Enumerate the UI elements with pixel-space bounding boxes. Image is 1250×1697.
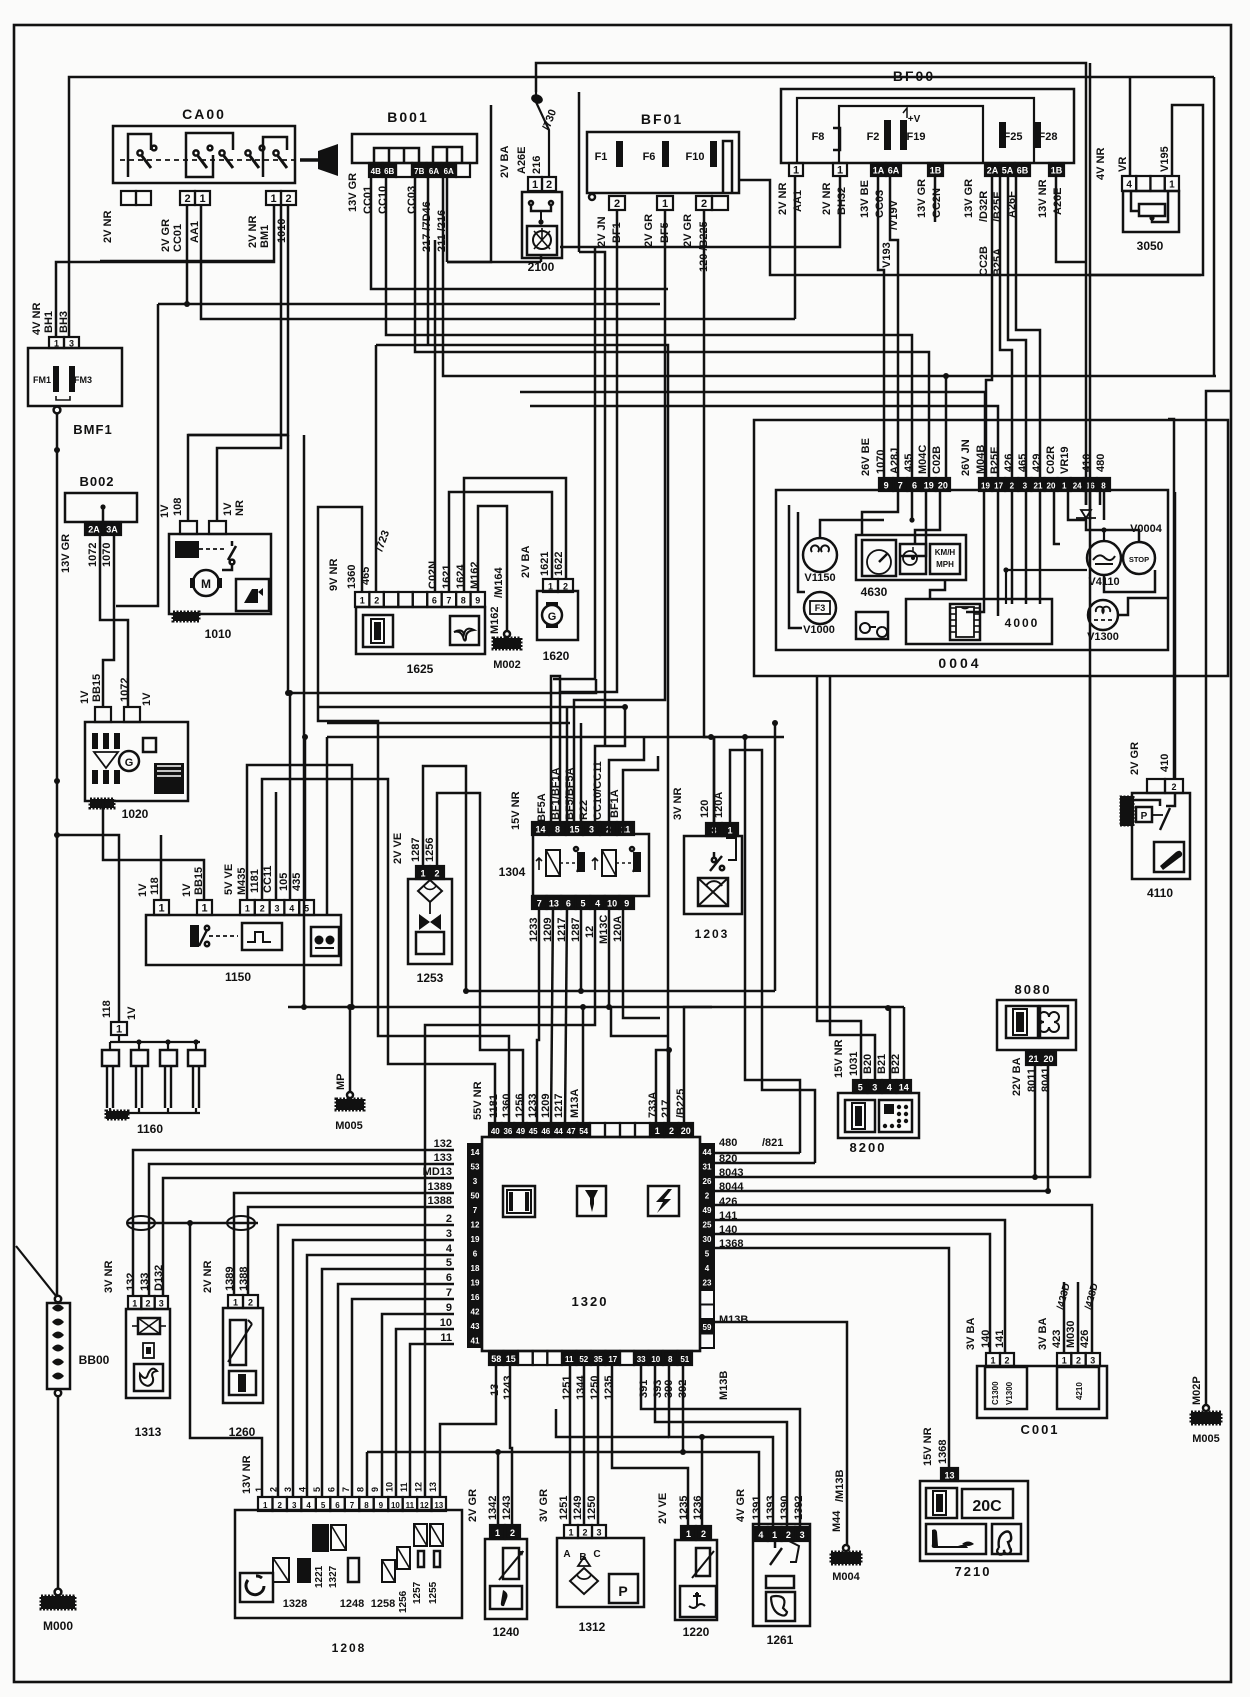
1220 icon xyxy=(680,1586,716,1617)
0004 right connector strip xyxy=(979,478,1110,491)
svg-text:M000: M000 xyxy=(43,1619,73,1633)
svg-text:26: 26 xyxy=(703,1177,712,1186)
svg-text:2: 2 xyxy=(285,193,291,205)
wire 1150 strip pin2 1181 to 1320 cell40 xyxy=(262,779,495,1123)
wire 1320 left fan to 1208 pins 2-11 xyxy=(278,1225,454,1497)
svg-text:2: 2 xyxy=(374,596,379,606)
svg-text:7210: 7210 xyxy=(955,1564,992,1579)
wire 1253 pin1 1287 loop xyxy=(423,766,466,991)
wire 1208 pin13 from 1320 pin58 xyxy=(440,1365,496,1497)
svg-text:31: 31 xyxy=(703,1163,712,1172)
svg-text:6A: 6A xyxy=(888,166,900,176)
svg-text:133: 133 xyxy=(434,1152,452,1164)
svg-text:11: 11 xyxy=(565,1355,574,1364)
svg-text:M44: M44 xyxy=(831,1510,843,1532)
svg-text:1: 1 xyxy=(270,193,276,205)
wire 1251 1320 to 1312 pin1 xyxy=(569,1365,572,1525)
1253 square xyxy=(416,932,444,954)
svg-text:CC2B: CC2B xyxy=(978,246,990,276)
1320 spark plug icon xyxy=(577,1186,606,1216)
wire 120A long vertical to 480 route xyxy=(745,737,800,1153)
gauge module 4630 xyxy=(856,535,966,580)
svg-text:1: 1 xyxy=(655,1126,660,1136)
svg-text:F3: F3 xyxy=(815,603,826,613)
wire 1320 bottom 1344 1250 1235 to 1312 1220 xyxy=(583,1365,586,1525)
svg-text:+V: +V xyxy=(908,114,921,125)
svg-text:G: G xyxy=(125,757,134,769)
svg-text:7B: 7B xyxy=(414,167,424,176)
svg-text:CC2N: CC2N xyxy=(931,188,943,218)
1312 pump diamond xyxy=(570,1568,598,1594)
svg-text:/D32R: /D32R xyxy=(978,191,990,222)
svg-text:B22: B22 xyxy=(890,1054,902,1074)
svg-text:4: 4 xyxy=(758,1530,763,1540)
svg-text:4: 4 xyxy=(306,1501,311,1510)
svg-text:1625: 1625 xyxy=(407,662,434,676)
wire 1320 390 to 1261 pin1 xyxy=(669,1365,773,1527)
1020 ground xyxy=(90,799,114,808)
svg-text:7: 7 xyxy=(473,1206,478,1215)
svg-text:1: 1 xyxy=(116,1024,122,1036)
wire 8043 from 1320 long right xyxy=(714,63,1090,1177)
1010 M motor xyxy=(193,570,219,596)
svg-text:1622: 1622 xyxy=(553,552,565,576)
injector 4 xyxy=(188,1050,205,1066)
wire BMF1 pin3 top bus y77 to 3050 pin4 xyxy=(69,77,1214,337)
svg-text:19: 19 xyxy=(981,482,990,491)
wire dangling bus y392 xyxy=(520,392,985,478)
svg-text:8200: 8200 xyxy=(850,1140,887,1155)
1320 coil icon xyxy=(503,1186,535,1217)
wire BF00 AA1 down xyxy=(794,176,797,319)
BF00 pin cells xyxy=(789,163,803,176)
svg-text:8: 8 xyxy=(668,1355,673,1364)
wire 141 to C001 pin2 xyxy=(714,1220,1005,1353)
svg-text:13: 13 xyxy=(434,1501,443,1510)
svg-text:MPH: MPH xyxy=(936,560,954,569)
svg-text:1: 1 xyxy=(158,903,164,915)
1260 thermistor symbol xyxy=(230,1320,246,1365)
svg-text:3: 3 xyxy=(446,1228,452,1240)
svg-text:7: 7 xyxy=(537,899,542,909)
1304 relay 2 xyxy=(602,850,616,876)
svg-text:F1: F1 xyxy=(595,151,608,163)
svg-text:2: 2 xyxy=(510,1528,515,1538)
svg-text:4: 4 xyxy=(446,1243,453,1255)
svg-text:1287: 1287 xyxy=(410,838,422,862)
svg-text:423: 423 xyxy=(1051,1330,1063,1348)
svg-text:19: 19 xyxy=(924,481,934,491)
BF01 pin cells xyxy=(589,194,595,200)
svg-text:43: 43 xyxy=(471,1322,480,1331)
component BF01 fuse box xyxy=(587,132,739,193)
svg-text:2: 2 xyxy=(563,582,568,592)
svg-text:2V NR: 2V NR xyxy=(202,1261,214,1293)
svg-text:24: 24 xyxy=(1073,482,1082,491)
svg-text:MD13: MD13 xyxy=(423,1166,452,1178)
ground M004 xyxy=(843,1545,849,1551)
1313 valve icon xyxy=(138,1318,160,1334)
component 1625 heater resistor unit xyxy=(356,607,485,654)
svg-text:1V: 1V xyxy=(79,690,91,704)
wire 1243 1320 pin15 to 1240 pin2 xyxy=(510,1365,512,1525)
1320 left connector xyxy=(468,1144,482,1347)
svg-text:20: 20 xyxy=(1043,1054,1053,1064)
wire C001 423 M030 stubs xyxy=(1063,1282,1066,1353)
component 1320 engine ECU xyxy=(482,1137,700,1351)
svg-text:14: 14 xyxy=(899,1083,909,1093)
svg-text:1221: 1221 xyxy=(314,1565,325,1588)
svg-text:58: 58 xyxy=(491,1354,501,1364)
wire BF00 BH32 down to left xyxy=(560,176,840,247)
svg-text:1248: 1248 xyxy=(340,1598,364,1610)
svg-text:5A: 5A xyxy=(1002,166,1014,176)
wire M13A into 1320 cell54 xyxy=(582,1007,585,1123)
7210 seat icon xyxy=(926,1524,986,1554)
wire 1625 pin7 loop to 1620 pin1 xyxy=(449,492,552,592)
wire 1320 391 to 1261 pin3 xyxy=(641,1365,800,1527)
svg-text:132: 132 xyxy=(434,1138,452,1150)
svg-text:20C: 20C xyxy=(972,1498,1002,1515)
svg-text:6A: 6A xyxy=(444,167,454,176)
wire M13A ground bus y1007 xyxy=(288,1006,904,1009)
1208 relay 1258 xyxy=(382,1560,395,1582)
7210 battery icon xyxy=(926,1488,957,1518)
ground M000 xyxy=(55,1589,62,1596)
svg-text:KM/H: KM/H xyxy=(935,548,956,557)
wire 820 from 1320 xyxy=(714,1162,815,1165)
svg-text:1: 1 xyxy=(772,1530,777,1540)
component 1203 idle actuator xyxy=(684,836,742,914)
svg-text:12: 12 xyxy=(414,1482,424,1492)
svg-text:BB15: BB15 xyxy=(91,674,103,702)
svg-text:1010: 1010 xyxy=(205,627,232,641)
svg-text:M004: M004 xyxy=(832,1571,860,1583)
svg-text:5: 5 xyxy=(705,1250,710,1259)
svg-text:13V NR: 13V NR xyxy=(1037,179,1049,218)
svg-text:19: 19 xyxy=(471,1279,480,1288)
wire 8080 feeds down xyxy=(1034,1066,1037,1177)
svg-text:B21: B21 xyxy=(876,1054,888,1074)
0004 internal wiring xyxy=(789,505,802,628)
wire BF00 CC03/V193 long down to 0004 xyxy=(878,176,884,478)
svg-text:2V GR: 2V GR xyxy=(467,1489,479,1522)
svg-text:1327: 1327 xyxy=(328,1565,339,1588)
wire 1360 1625 pin1 loop to 1320 cell36 xyxy=(318,507,509,1123)
component 3050 xyxy=(1122,176,1179,191)
control unit 4000 with IC chip xyxy=(906,599,1052,644)
CA00 dashed actuator line and key symbol xyxy=(120,159,300,161)
8080 connector 21|20 xyxy=(1026,1051,1056,1065)
wire M02P from right border xyxy=(1206,391,1230,1405)
wire 1150 pin1 up to ground rail xyxy=(160,835,163,900)
svg-text:6: 6 xyxy=(327,1487,337,1492)
svg-text:49: 49 xyxy=(703,1206,712,1215)
wire BF00 A26E down xyxy=(1056,176,1086,262)
wire 1304 pin 1217 down to 1320 xyxy=(565,909,567,1123)
svg-text:1258: 1258 xyxy=(371,1598,395,1610)
svg-text:10: 10 xyxy=(651,1355,660,1364)
svg-text:6: 6 xyxy=(912,481,917,491)
svg-text:41: 41 xyxy=(471,1337,480,1346)
1208 icon box xyxy=(240,1573,273,1602)
1320 top connector xyxy=(489,1123,590,1137)
wire 1625 pin8 loop to 1620 pin2 xyxy=(464,478,566,592)
wire dangling bus y406 xyxy=(530,406,998,478)
svg-text:13V BE: 13V BE xyxy=(859,180,871,218)
svg-text:13: 13 xyxy=(428,1482,438,1492)
1010 relay coil xyxy=(175,541,199,558)
svg-text:5: 5 xyxy=(312,1487,322,1492)
svg-text:1304: 1304 xyxy=(499,865,526,879)
wire 1304 pin M13C down to ground bus xyxy=(608,909,611,1007)
svg-text:2: 2 xyxy=(434,869,439,879)
svg-text:1261: 1261 xyxy=(767,1633,794,1647)
svg-text:2: 2 xyxy=(1010,482,1015,491)
wire left vertical 158 down to B002 zone xyxy=(116,304,158,606)
svg-text:1621: 1621 xyxy=(539,552,551,576)
wire 7210 области x948 xyxy=(948,1451,950,1453)
svg-text:1160: 1160 xyxy=(137,1122,163,1136)
wire diode to V4110 V0004 xyxy=(1086,518,1139,542)
injector 3 xyxy=(160,1050,177,1066)
warning lamp V1300 coolant xyxy=(1088,600,1118,630)
svg-text:2: 2 xyxy=(786,1530,791,1540)
wire 1368 to 7210 xyxy=(714,1248,949,1468)
svg-text:4V GR: 4V GR xyxy=(735,1489,747,1522)
svg-text:1B: 1B xyxy=(930,166,942,176)
4110 ground block xyxy=(1120,796,1134,826)
svg-text:33: 33 xyxy=(637,1355,646,1364)
svg-text:F28: F28 xyxy=(1039,131,1058,143)
svg-text:2: 2 xyxy=(1004,1356,1009,1366)
svg-text:1150: 1150 xyxy=(225,970,251,984)
svg-text:V193: V193 xyxy=(881,242,893,268)
svg-text:55V NR: 55V NR xyxy=(472,1081,484,1120)
component 4110 handbrake contact xyxy=(1132,793,1190,879)
svg-text:9: 9 xyxy=(475,596,480,606)
svg-text:15V NR: 15V NR xyxy=(833,1039,845,1078)
svg-text:1: 1 xyxy=(568,1528,573,1538)
svg-text:410: 410 xyxy=(1159,754,1171,772)
8080 fan icon xyxy=(1040,1006,1068,1038)
svg-text:4V NR: 4V NR xyxy=(31,303,43,335)
svg-text:2V VE: 2V VE xyxy=(392,833,404,864)
svg-text:F25: F25 xyxy=(1004,131,1023,143)
svg-text:2: 2 xyxy=(277,1501,282,1510)
svg-text:6: 6 xyxy=(446,1272,452,1284)
svg-text:53: 53 xyxy=(471,1163,480,1172)
svg-text:1: 1 xyxy=(548,582,553,592)
svg-text:16: 16 xyxy=(471,1293,480,1302)
svg-text:1: 1 xyxy=(360,596,365,606)
svg-text:21: 21 xyxy=(1034,482,1043,491)
component 1010 fuel pump assembly xyxy=(169,534,271,614)
svg-text:M005: M005 xyxy=(1192,1433,1220,1445)
svg-text:B20: B20 xyxy=(862,1054,874,1074)
svg-text:19: 19 xyxy=(471,1235,480,1244)
svg-text:2V JN: 2V JN xyxy=(596,216,608,247)
svg-text:1: 1 xyxy=(662,198,668,210)
svg-text:1V: 1V xyxy=(181,883,193,897)
svg-text:20: 20 xyxy=(681,1126,691,1136)
wire ground bus detour to 217 xyxy=(611,1007,669,1036)
svg-text:1391: 1391 xyxy=(751,1496,763,1520)
svg-text:1203: 1203 xyxy=(695,927,730,941)
svg-text:17: 17 xyxy=(994,482,1003,491)
wire bus y723 xyxy=(327,722,570,725)
svg-text:V1000: V1000 xyxy=(803,624,835,636)
wire branch to 0004 cell20 xyxy=(945,376,948,478)
svg-text:2A: 2A xyxy=(987,166,999,176)
svg-text:STOP: STOP xyxy=(1129,555,1149,564)
svg-text:1360: 1360 xyxy=(501,1094,513,1118)
svg-text:26V JN: 26V JN xyxy=(960,439,972,476)
1261 switch xyxy=(774,1541,777,1548)
wire CA00 right pin2 down 1010 wire xyxy=(217,205,281,521)
svg-text:BH32: BH32 xyxy=(836,187,848,215)
svg-text:BF1A: BF1A xyxy=(609,789,621,818)
wire 8044 long right to 8080 pin20 xyxy=(714,1190,1048,1193)
svg-text:2: 2 xyxy=(701,198,707,210)
1313 sensor icon xyxy=(143,1343,154,1358)
svg-text:47: 47 xyxy=(567,1127,576,1136)
svg-text:4: 4 xyxy=(887,1083,892,1093)
svg-text:B002: B002 xyxy=(79,474,114,489)
7210 20C display xyxy=(962,1489,1013,1518)
1010 internal ground xyxy=(173,612,199,621)
svg-text:2: 2 xyxy=(546,179,552,191)
1208 relay 1328 xyxy=(273,1558,289,1582)
svg-text:3: 3 xyxy=(872,1083,877,1093)
svg-text:1388: 1388 xyxy=(428,1195,452,1207)
svg-text:1072: 1072 xyxy=(87,543,99,567)
svg-text:9: 9 xyxy=(624,899,629,909)
1203 X-box xyxy=(698,878,728,906)
component BF00 main fuse box xyxy=(781,89,1074,163)
4110 P box and switch xyxy=(1136,807,1152,822)
svg-text:1V: 1V xyxy=(126,1006,138,1020)
svg-text:M13B: M13B xyxy=(719,1314,748,1326)
svg-text:108: 108 xyxy=(172,498,184,516)
component C001 connector xyxy=(977,1366,1107,1418)
wire bus y991 1287 xyxy=(466,990,775,993)
svg-text:52: 52 xyxy=(579,1355,588,1364)
svg-text:4: 4 xyxy=(595,899,600,909)
svg-text:1V: 1V xyxy=(137,883,149,897)
svg-text:7: 7 xyxy=(446,1287,452,1299)
svg-text:2: 2 xyxy=(260,904,265,914)
svg-text:49: 49 xyxy=(516,1127,525,1136)
wire B001 217 down xyxy=(427,177,430,345)
svg-text:1240: 1240 xyxy=(493,1625,520,1639)
1320 right connector xyxy=(700,1144,714,1289)
svg-text:3: 3 xyxy=(1023,482,1028,491)
B001 coded cell strip xyxy=(369,163,396,177)
1150 horn icon xyxy=(311,927,339,956)
svg-text:1: 1 xyxy=(495,1528,500,1538)
svg-text:6A: 6A xyxy=(429,167,439,176)
svg-text:15V NR: 15V NR xyxy=(922,1427,934,1466)
svg-text:3: 3 xyxy=(292,1501,297,1510)
svg-text:9: 9 xyxy=(370,1487,380,1492)
svg-text:13V GR: 13V GR xyxy=(916,179,928,218)
svg-text:2: 2 xyxy=(582,1528,587,1538)
svg-text:CC03: CC03 xyxy=(874,190,886,218)
wire 1150 strip pin5 to bus 737 xyxy=(304,737,307,900)
1208 relay 1221 1327 xyxy=(312,1524,329,1552)
svg-text:6: 6 xyxy=(566,899,571,909)
svg-text:3: 3 xyxy=(1090,1356,1095,1366)
wire 1236 1220 pin2 up to bus1437 xyxy=(701,1437,704,1526)
8080 battery icon xyxy=(1006,1006,1038,1038)
svg-text:1: 1 xyxy=(1062,482,1067,491)
ground M005 center MP xyxy=(347,1092,353,1098)
1203 switch xyxy=(713,852,716,858)
svg-text:15: 15 xyxy=(569,825,579,835)
wire BMF1 pin1 to CA00 xyxy=(56,205,274,337)
svg-text:2: 2 xyxy=(1171,782,1176,792)
wire 1320 393 to 1261 pin2 xyxy=(655,1365,787,1527)
svg-text:8: 8 xyxy=(364,1501,369,1510)
svg-text:10: 10 xyxy=(607,899,617,909)
svg-text:59: 59 xyxy=(703,1323,712,1332)
svg-text:VR19: VR19 xyxy=(1059,446,1071,474)
wire B001 CC01 bus y289 xyxy=(371,177,668,289)
svg-text:10: 10 xyxy=(440,1317,452,1329)
svg-text:120: 120 xyxy=(699,800,711,818)
icon glasses box xyxy=(856,612,888,639)
wire 1304 pin 1209 down to 1320 xyxy=(551,909,553,1123)
svg-text:6: 6 xyxy=(432,596,437,606)
svg-text:3050: 3050 xyxy=(1137,239,1164,253)
wire BMF1 bottom to M000 long left vertical xyxy=(56,414,59,1296)
svg-text:1313: 1313 xyxy=(135,1425,162,1439)
component CA00 ignition/lighting switch xyxy=(113,126,295,183)
svg-text:1257: 1257 xyxy=(412,1581,423,1604)
svg-text:15V NR: 15V NR xyxy=(510,791,522,830)
svg-text:23: 23 xyxy=(703,1279,712,1288)
wire bus y1452 1342 from 1208 pin8 to 1261 pin4 xyxy=(366,1452,369,1497)
wire bus y693 from 1010 region to 1620 region xyxy=(288,679,596,693)
svg-text:1243: 1243 xyxy=(502,1376,514,1400)
svg-text:A26E: A26E xyxy=(516,146,528,174)
svg-text:F19: F19 xyxy=(907,131,926,143)
1320 lightning icon xyxy=(648,1186,679,1216)
1010 fuel pump icon xyxy=(236,579,269,611)
svg-text:MP: MP xyxy=(335,1074,347,1091)
svg-text:1181: 1181 xyxy=(249,869,261,893)
svg-text:1251: 1251 xyxy=(558,1496,570,1520)
svg-text:30: 30 xyxy=(703,1235,712,1244)
svg-text:36: 36 xyxy=(503,1127,512,1136)
svg-text:6: 6 xyxy=(473,1250,478,1259)
wire down into 1625 pin6 xyxy=(434,240,437,592)
svg-text:M04C: M04C xyxy=(917,445,929,474)
svg-text:0004: 0004 xyxy=(938,655,981,671)
7210 phone icon xyxy=(992,1524,1021,1554)
wire M005 MP drop xyxy=(349,1007,352,1092)
component B002 xyxy=(65,493,137,522)
wire 2100 feed with connector blob xyxy=(536,92,549,177)
ground M002 xyxy=(504,631,510,637)
1260 icon xyxy=(229,1371,256,1395)
svg-text:5: 5 xyxy=(321,1501,326,1510)
svg-text:1312: 1312 xyxy=(579,1620,606,1634)
svg-text:4V NR: 4V NR xyxy=(1095,148,1107,180)
svg-text:17: 17 xyxy=(608,1355,617,1364)
svg-text:M162: M162 xyxy=(489,606,501,634)
